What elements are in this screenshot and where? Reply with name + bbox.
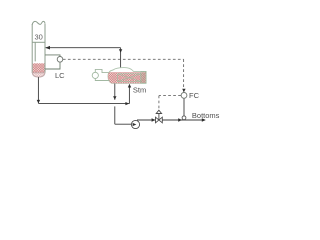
- signal: FC to valve vertical (dashed): [158, 96, 160, 110]
- wire: base liquid horizontal to reboiler: [38, 103, 129, 105]
- svg-text:FC: FC: [189, 91, 200, 100]
- valve stem: [158, 114, 160, 121]
- circulation bottom link: [95, 79, 109, 81]
- wire: bottoms line to product arrow: [162, 119, 205, 121]
- column top break (wavy): [32, 21, 45, 24]
- wire: column base outlet down: [37, 77, 39, 103]
- svg-text:30: 30: [35, 33, 43, 42]
- column shell wall right: [44, 24, 46, 73]
- column shell wall left: [31, 24, 33, 73]
- wire: pump suction: [115, 123, 132, 125]
- signal: FC to valve horizontal (dashed): [159, 95, 181, 97]
- svg-text:LC: LC: [55, 71, 65, 80]
- pump: [131, 120, 139, 128]
- wire: vapor riser from reboiler dome: [120, 48, 122, 70]
- controller FC: [181, 93, 187, 99]
- column sump liquid (hatched): [33, 63, 45, 73]
- circulation top link: [95, 69, 108, 72]
- tray line: [32, 41, 45, 43]
- wire: vapor return line horizontal: [46, 47, 121, 49]
- arrowhead before valve: [152, 118, 156, 121]
- control valve body: [156, 117, 163, 123]
- reboiler shell: [108, 68, 146, 84]
- reboiler circulation circle: [92, 72, 98, 78]
- arrowhead into column (vapor): [45, 46, 50, 50]
- downcomer: [34, 42, 36, 61]
- arrowhead down at vapor corner: [119, 49, 122, 53]
- wire: reboiler liquid outlet upper: [114, 84, 116, 100]
- arrowhead bottoms end: [202, 118, 206, 121]
- arrowhead down on reboiler outlet: [113, 96, 116, 100]
- svg-text:Stm: Stm: [133, 85, 146, 94]
- wire: riser into reboiler bottom (Stm): [128, 85, 130, 104]
- arrowhead down at base outlet corner: [37, 100, 40, 104]
- valve actuator: [156, 110, 161, 113]
- signal: LC to FC horizontal (dashed): [63, 58, 184, 60]
- svg-text:Bottoms: Bottoms: [192, 111, 220, 120]
- arrowhead right before steam riser corner: [125, 102, 129, 105]
- wire: flow element to FC: [183, 98, 185, 116]
- wire: reboiler liquid outlet lower: [114, 106, 116, 124]
- reboiler liquid (hatched): [107, 72, 147, 83]
- signal: LC to FC vertical (dashed): [183, 59, 185, 91]
- LC lower tap: [45, 62, 60, 69]
- controller LC: [57, 57, 63, 63]
- arrowhead inside pump: [133, 123, 137, 126]
- wire: pump discharge to valve: [137, 119, 155, 121]
- arrowhead before flow element: [178, 118, 182, 121]
- flow element on bottoms line: [182, 116, 186, 120]
- arrowhead into FC: [182, 89, 185, 93]
- arrowhead up into reboiler shell: [128, 84, 131, 88]
- LC upper tap: [45, 55, 60, 57]
- reboiler tube bundle: [118, 74, 141, 82]
- reboiler channel head (hatched): [141, 72, 146, 84]
- column bottom head: [32, 73, 45, 77]
